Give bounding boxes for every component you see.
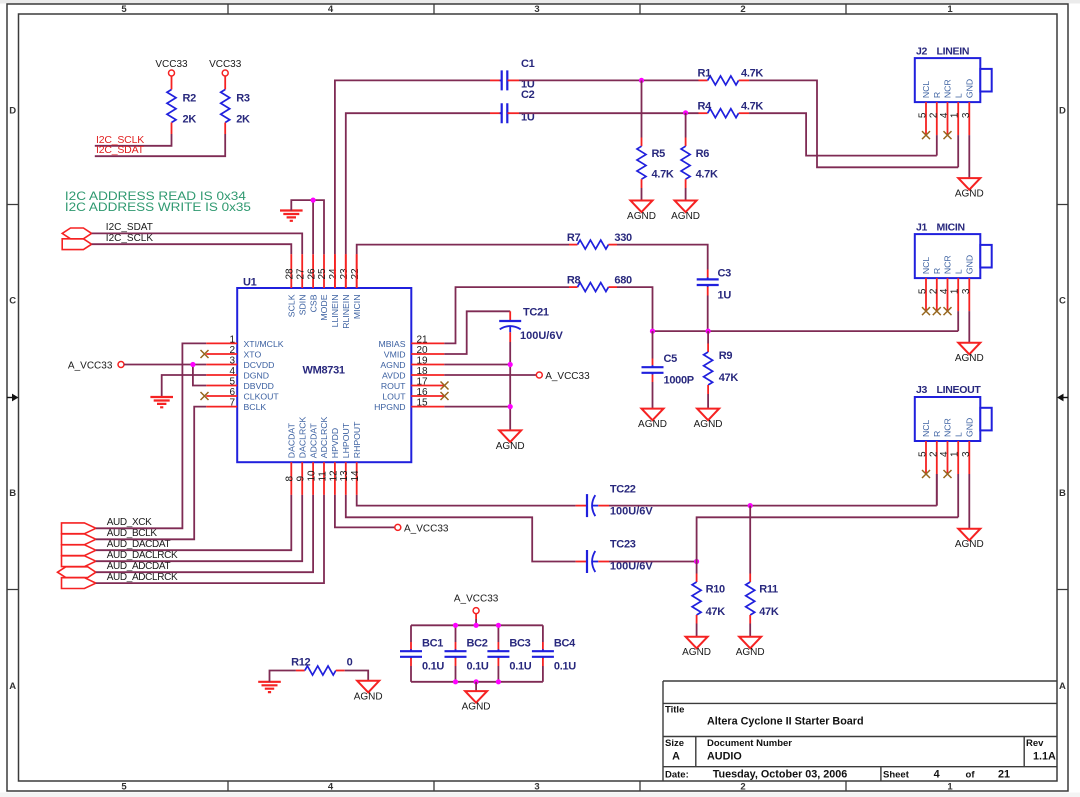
wire BC rail to AGND	[475, 682, 477, 691]
svg-text:2: 2	[740, 782, 745, 793]
capacitor BC4 0.1U	[542, 625, 544, 642]
U1 left pin 4 DGND	[206, 374, 237, 376]
wire R7 to C3	[617, 245, 708, 270]
wire LLINEIN to C1	[335, 80, 490, 254]
svg-text:2: 2	[230, 345, 236, 356]
ground at DGND	[150, 397, 173, 407]
svg-text:DGND: DGND	[244, 370, 270, 380]
svg-text:Size: Size	[665, 738, 684, 749]
svg-text:R6: R6	[696, 148, 710, 160]
junction BC rail top x=476.1	[474, 623, 479, 628]
svg-text:SDIN: SDIN	[297, 295, 307, 316]
junction TC23/R10	[694, 559, 699, 564]
svg-text:3: 3	[534, 782, 539, 793]
svg-text:VMID: VMID	[384, 349, 406, 359]
off-page connector AUD_DACLRCK	[62, 556, 96, 567]
svg-text:10: 10	[307, 470, 318, 482]
U1 left pin 5 DBVDD	[206, 385, 237, 387]
U1 left pin 7 BCLK	[206, 406, 237, 408]
svg-text:Altera Cyclone II Starter Boar: Altera Cyclone II Starter Board	[707, 716, 864, 728]
off-page connector AUD_XCK	[62, 523, 96, 534]
U1 left pin 6 CLKOUT	[206, 395, 237, 397]
U1 top pin 27 SDIN	[301, 254, 303, 288]
svg-text:AUD_ADCLRCK: AUD_ADCLRCK	[107, 572, 178, 583]
svg-text:1: 1	[230, 334, 236, 345]
resistor R9 47K	[707, 331, 709, 343]
ground AGND under R10	[686, 637, 708, 649]
svg-text:BCLK: BCLK	[244, 402, 267, 412]
svg-text:R10: R10	[706, 584, 725, 596]
wire R3 to I2C_SDAT	[95, 134, 225, 156]
svg-text:5: 5	[121, 4, 127, 15]
wire J3 pin L down	[957, 474, 959, 517]
svg-text:A: A	[9, 681, 16, 692]
svg-text:HPVDD: HPVDD	[330, 428, 340, 458]
resistor R3 2K	[224, 76, 226, 90]
svg-text:4: 4	[939, 288, 950, 294]
wire RHPOUT to TC22	[357, 495, 576, 506]
svg-text:18: 18	[417, 366, 429, 377]
svg-text:DACLRCK: DACLRCK	[297, 416, 307, 458]
svg-text:NCL: NCL	[921, 419, 931, 437]
wire TC22 to J3 pin R	[609, 474, 937, 506]
svg-text:GND: GND	[965, 79, 975, 98]
ground AGND under R5	[631, 201, 653, 213]
svg-text:Sheet: Sheet	[883, 770, 910, 781]
svg-text:Document Number: Document Number	[707, 738, 792, 749]
svg-text:AUD_BCLK: AUD_BCLK	[107, 528, 158, 539]
right border arrow	[1063, 397, 1068, 399]
svg-text:A_VCC33: A_VCC33	[454, 594, 499, 605]
ground AGND under R9	[697, 409, 719, 421]
ground AGND J3	[958, 529, 980, 541]
svg-text:RLINEIN: RLINEIN	[341, 295, 351, 329]
junction HPGND pin15	[508, 404, 513, 409]
svg-text:4: 4	[939, 112, 950, 118]
svg-text:R1: R1	[698, 68, 712, 80]
svg-text:AGND: AGND	[638, 419, 667, 430]
resistor R6 4.7K	[685, 113, 687, 138]
svg-text:J1: J1	[916, 221, 928, 233]
svg-text:NCL: NCL	[921, 257, 931, 275]
svg-text:AGND: AGND	[682, 647, 711, 658]
svg-text:AGND: AGND	[955, 353, 984, 364]
svg-text:DBVDD: DBVDD	[244, 381, 274, 391]
svg-text:15: 15	[417, 398, 429, 409]
svg-text:J3: J3	[916, 384, 928, 396]
svg-text:26: 26	[306, 268, 317, 280]
junction BC rail top x=498.4	[496, 623, 501, 628]
capacitor C1 1U	[490, 79, 502, 81]
svg-text:330: 330	[614, 232, 632, 244]
svg-text:6: 6	[230, 387, 236, 398]
svg-text:Tuesday, October 03, 2006: Tuesday, October 03, 2006	[713, 769, 848, 781]
svg-text:1: 1	[947, 782, 953, 793]
svg-text:47K: 47K	[759, 606, 779, 618]
wire VMID bracket to TC21	[444, 311, 510, 354]
svg-text:13: 13	[339, 470, 350, 482]
wire R2 to I2C_SCLK	[95, 134, 172, 146]
wire C3 to mic node	[707, 296, 709, 332]
svg-text:28: 28	[285, 268, 296, 280]
svg-text:22: 22	[350, 268, 361, 280]
resistor R12 0	[270, 671, 296, 682]
wire DACDAT to AUD_DACDAT	[96, 495, 291, 550]
U1 right pin 16 LOUT	[411, 395, 444, 397]
wire BC bottom rail	[411, 681, 543, 683]
svg-text:4: 4	[230, 366, 236, 377]
wire J2 pin L down	[957, 135, 959, 167]
wire HPVDD to A_VCC33	[335, 495, 395, 528]
wire LHPOUT to TC23	[346, 495, 576, 562]
svg-text:9: 9	[296, 476, 307, 482]
svg-text:25: 25	[317, 268, 328, 280]
wire C1 to R1	[519, 79, 699, 81]
power A_VCC33 at HPVDD	[395, 524, 401, 530]
svg-text:A_VCC33: A_VCC33	[545, 371, 590, 382]
power A_VCC33 at AVDD	[536, 372, 542, 378]
title block	[663, 681, 1057, 781]
off-page connector AUD_BCLK	[62, 534, 96, 545]
resistor R11 47K	[749, 506, 751, 574]
no-connects ROUT LOUT	[441, 382, 449, 390]
svg-text:100U/6V: 100U/6V	[610, 506, 653, 518]
svg-text:C: C	[1059, 296, 1066, 307]
svg-text:1: 1	[947, 4, 953, 15]
wire ADCDAT to AUD_ADCDAT	[96, 495, 313, 572]
svg-text:100U/6V: 100U/6V	[520, 330, 563, 342]
svg-text:MICIN: MICIN	[937, 221, 965, 233]
ground AGND under R11	[739, 637, 761, 649]
svg-text:I2C_SDAT: I2C_SDAT	[106, 222, 153, 233]
off-page connector AUD_ADCLRCK	[62, 578, 96, 589]
svg-text:BC3: BC3	[509, 638, 530, 650]
op IC U1 WM8731 body	[237, 288, 411, 462]
svg-text:AGND: AGND	[955, 189, 984, 200]
svg-text:0.1U: 0.1U	[467, 661, 489, 673]
capacitor TC21 100U/6V	[509, 311, 511, 321]
ground AGND under C5	[642, 409, 664, 421]
svg-text:ADCDAT: ADCDAT	[308, 422, 318, 458]
svg-text:GND: GND	[965, 418, 975, 437]
resistor R8 680	[569, 286, 578, 288]
svg-text:27: 27	[295, 268, 306, 280]
svg-text:D: D	[1059, 106, 1066, 117]
svg-text:WM8731: WM8731	[303, 365, 345, 377]
svg-text:GND: GND	[965, 255, 975, 274]
U1 top pin 25 MODE	[323, 254, 325, 288]
svg-text:4: 4	[328, 4, 334, 15]
svg-text:2K: 2K	[236, 114, 250, 126]
svg-text:AUDIO: AUDIO	[707, 751, 742, 763]
svg-text:4.7K: 4.7K	[652, 169, 674, 181]
off-page connector I2C_SDAT	[62, 228, 91, 239]
junction R1/R5	[639, 78, 644, 83]
wire branch to CSB	[312, 200, 314, 254]
svg-text:MICIN: MICIN	[352, 295, 362, 320]
svg-text:C5: C5	[664, 353, 678, 365]
ground at R12	[258, 682, 281, 692]
U1 top pin 28 SCLK	[290, 254, 292, 288]
svg-text:ADCLRCK: ADCLRCK	[319, 416, 329, 458]
svg-text:5: 5	[918, 451, 929, 457]
svg-text:Date:: Date:	[665, 770, 689, 781]
svg-text:A_VCC33: A_VCC33	[404, 523, 449, 534]
wire A_VCC33 to DCVDD	[124, 364, 206, 366]
capacitor C5 1000P	[652, 331, 654, 358]
svg-text:VCC33: VCC33	[209, 59, 242, 70]
U1 top pin 26 CSB	[312, 254, 314, 288]
U1 left pin 1 XTI/MCLK	[206, 342, 237, 344]
connector J1 MICIN	[915, 234, 981, 278]
svg-text:D: D	[9, 106, 16, 117]
svg-text:NCR: NCR	[943, 255, 953, 274]
svg-text:B: B	[9, 488, 16, 499]
junction C5 node	[650, 329, 655, 334]
svg-text:HPGND: HPGND	[374, 402, 405, 412]
svg-text:RHPOUT: RHPOUT	[352, 421, 362, 458]
svg-text:L: L	[953, 93, 963, 98]
resistor R7 330	[569, 244, 578, 246]
svg-text:R2: R2	[183, 93, 197, 105]
svg-text:I2C ADDRESS WRITE IS 0x35: I2C ADDRESS WRITE IS 0x35	[65, 200, 251, 214]
svg-text:3: 3	[961, 288, 972, 294]
svg-text:SCLK: SCLK	[287, 294, 297, 317]
svg-text:5: 5	[918, 112, 929, 118]
no-connects J2 NCL NCR	[922, 131, 930, 139]
svg-text:0.1U: 0.1U	[422, 661, 444, 673]
svg-text:19: 19	[417, 356, 429, 367]
U1 bottom pin 8 DACDAT	[290, 462, 292, 495]
svg-text:R11: R11	[759, 584, 778, 596]
svg-text:R12: R12	[291, 656, 310, 668]
U1 top pin 22 MICIN	[356, 254, 358, 288]
wire branch to DBVDD	[193, 365, 206, 386]
resistor R10 47K	[696, 562, 698, 574]
U1 bottom pin 14 RHPOUT	[356, 462, 358, 495]
svg-text:C3: C3	[718, 268, 732, 280]
U1 right pin 20 VMID	[411, 353, 444, 355]
svg-text:BC4: BC4	[554, 638, 576, 650]
svg-text:AGND: AGND	[694, 419, 723, 430]
svg-text:of: of	[966, 770, 976, 781]
svg-text:2K: 2K	[183, 114, 197, 126]
svg-text:LHPOUT: LHPOUT	[341, 422, 351, 458]
wire MICIN to R7	[357, 245, 569, 255]
U1 bottom pin 12 HPVDD	[334, 462, 336, 495]
wire BCLK to AUD_BCLK	[96, 407, 206, 540]
svg-text:1000P: 1000P	[664, 375, 694, 387]
svg-text:1: 1	[950, 112, 961, 118]
capacitor C3 1U	[707, 270, 709, 278]
ground AGND J2	[958, 178, 980, 190]
svg-text:A: A	[1059, 681, 1066, 692]
svg-text:20: 20	[417, 345, 429, 356]
svg-text:1U: 1U	[718, 290, 732, 302]
svg-text:4: 4	[939, 451, 950, 457]
svg-text:0: 0	[347, 656, 353, 668]
junction BC rail bottom x=455.5	[453, 679, 458, 684]
wire XTI/MCLK to AUD_XCK	[96, 343, 206, 528]
junction TC22/R11	[748, 503, 753, 508]
svg-text:680: 680	[614, 275, 632, 287]
no-connects XTO CLKOUT	[201, 350, 209, 358]
resistor R5 4.7K	[641, 80, 643, 137]
svg-text:3: 3	[534, 4, 539, 15]
resistor R4 4.7K	[699, 112, 708, 114]
svg-text:LINEIN: LINEIN	[937, 45, 970, 57]
svg-text:AVDD: AVDD	[382, 370, 406, 380]
svg-text:NCL: NCL	[921, 81, 931, 99]
svg-text:5: 5	[918, 288, 929, 294]
U1 bottom pin 11 ADCLRCK	[323, 462, 325, 495]
svg-text:XTO: XTO	[244, 349, 262, 359]
wire ADCLRCK to AUD_ADCLRCK	[96, 495, 324, 583]
capacitor BC2 0.1U	[455, 625, 457, 642]
svg-text:R8: R8	[567, 275, 581, 287]
svg-text:A_VCC33: A_VCC33	[68, 360, 113, 371]
ground AGND at R12	[357, 681, 379, 693]
svg-text:BC1: BC1	[422, 638, 443, 650]
ground AGND under TC21	[499, 430, 521, 442]
svg-text:C2: C2	[521, 89, 535, 101]
off-page connector I2C_SCLK	[62, 239, 91, 250]
svg-text:47K: 47K	[706, 606, 726, 618]
svg-text:AGND: AGND	[671, 211, 700, 222]
svg-text:11: 11	[317, 471, 328, 482]
svg-text:2: 2	[928, 288, 939, 294]
svg-text:DACDAT: DACDAT	[287, 422, 297, 458]
wire RLINEIN to C2	[346, 113, 490, 254]
wire R1 to J2 pin L	[749, 80, 958, 167]
svg-text:R: R	[932, 431, 942, 437]
svg-text:MBIAS: MBIAS	[378, 339, 405, 349]
ground AGND under R6	[675, 201, 697, 213]
svg-text:LLINEIN: LLINEIN	[330, 295, 340, 328]
U1 right pin 18 AVDD	[411, 374, 444, 376]
svg-text:4.7K: 4.7K	[741, 68, 763, 80]
svg-text:4.7K: 4.7K	[741, 100, 763, 112]
connector J3 LINEOUT	[915, 397, 981, 441]
svg-text:23: 23	[339, 268, 350, 280]
svg-text:BC2: BC2	[467, 638, 488, 650]
wire MBIAS to R8	[444, 287, 569, 343]
svg-text:U1: U1	[243, 276, 257, 288]
connector J2 LINEIN	[915, 58, 981, 102]
svg-text:A: A	[672, 751, 680, 763]
U1 right pin 19 AGND	[411, 364, 444, 366]
capacitor BC1 0.1U	[410, 625, 412, 642]
svg-text:C: C	[9, 296, 16, 307]
svg-text:AUD_DACLRCK: AUD_DACLRCK	[107, 550, 178, 561]
no-connects J1 NCL R NCR	[922, 307, 930, 315]
svg-text:0.1U: 0.1U	[509, 661, 531, 673]
svg-text:21: 21	[417, 334, 429, 345]
U1 top pin 24 LLINEIN	[334, 254, 336, 288]
svg-text:R7: R7	[567, 232, 581, 244]
junction CSB	[311, 198, 316, 203]
svg-text:J2: J2	[916, 45, 928, 57]
junction BC rail bottom x=476.1	[474, 679, 479, 684]
wire J2 GND	[968, 135, 970, 178]
svg-text:AGND: AGND	[736, 647, 765, 658]
U1 bottom pin 13 LHPOUT	[345, 462, 347, 495]
svg-text:4: 4	[934, 769, 940, 781]
svg-text:L: L	[953, 269, 963, 274]
off-page connector AUD_ADCDAT	[58, 567, 96, 578]
svg-text:2: 2	[928, 451, 939, 457]
wire mic bus	[653, 330, 959, 332]
junction C3/R9 node	[706, 329, 711, 334]
wire J3 GND	[968, 474, 970, 529]
svg-text:MODE: MODE	[319, 294, 329, 320]
wire I2C_SDAT to pin27	[92, 233, 303, 254]
svg-text:3: 3	[230, 356, 236, 367]
svg-text:8: 8	[285, 476, 296, 482]
wire BC top rail	[411, 624, 543, 626]
U1 right pin 15 HPGND	[411, 406, 444, 408]
svg-text:1: 1	[950, 451, 961, 457]
svg-text:I2C_SCLK: I2C_SCLK	[106, 233, 154, 244]
wire AVDD to A_VCC33	[444, 374, 536, 376]
capacitor TC22 100U/6V	[576, 505, 587, 507]
svg-text:VCC33: VCC33	[155, 59, 188, 70]
resistor R2 2K	[171, 76, 173, 90]
svg-text:R: R	[932, 268, 942, 274]
svg-text:NCR: NCR	[943, 418, 953, 437]
U1 left pin 3 DCVDD	[206, 364, 237, 366]
svg-text:NCR: NCR	[943, 79, 953, 98]
U1 right pin 17 ROUT	[411, 385, 444, 387]
svg-text:Title: Title	[665, 705, 684, 716]
svg-text:XTI/MCLK: XTI/MCLK	[244, 339, 284, 349]
junction BC rail bottom x=498.4	[496, 679, 501, 684]
svg-text:TC22: TC22	[610, 484, 636, 496]
svg-text:4: 4	[328, 782, 334, 793]
svg-text:3: 3	[961, 451, 972, 457]
wire J1 pin L down to mic node	[957, 311, 959, 331]
svg-text:TC21: TC21	[523, 307, 549, 319]
svg-text:R3: R3	[236, 93, 250, 105]
capacitor BC3 0.1U	[497, 625, 499, 642]
svg-text:AUD_DACDAT: AUD_DACDAT	[107, 539, 171, 550]
resistor R1 4.7K	[699, 79, 708, 81]
no-connects J3 NCL NCR	[922, 470, 930, 478]
svg-text:LOUT: LOUT	[382, 391, 406, 401]
wire DACLRCK to AUD_DACLRCK	[96, 495, 302, 561]
svg-text:47K: 47K	[719, 372, 739, 384]
svg-text:AGND: AGND	[354, 691, 383, 702]
svg-text:CLKOUT: CLKOUT	[244, 391, 280, 401]
off-page connector AUD_DACDAT	[62, 545, 96, 556]
svg-text:AGND: AGND	[627, 211, 656, 222]
svg-text:AGND: AGND	[496, 441, 525, 452]
wire DGND to ground	[162, 375, 207, 397]
svg-text:B: B	[1059, 488, 1066, 499]
svg-text:2: 2	[928, 112, 939, 118]
svg-text:21: 21	[998, 769, 1010, 781]
wire R10 node to J3 pin L	[697, 517, 959, 561]
ground AGND under BC caps	[465, 691, 487, 703]
svg-text:24: 24	[328, 268, 339, 280]
svg-text:CSB: CSB	[308, 294, 318, 312]
svg-text:12: 12	[328, 470, 339, 482]
wire AGND19 row	[444, 364, 510, 366]
U1 left pin 2 XTO	[206, 353, 237, 355]
svg-text:LINEOUT: LINEOUT	[937, 384, 982, 396]
U1 bottom pin 9 DACLRCK	[301, 462, 303, 495]
junction AGND pin19	[508, 362, 513, 367]
